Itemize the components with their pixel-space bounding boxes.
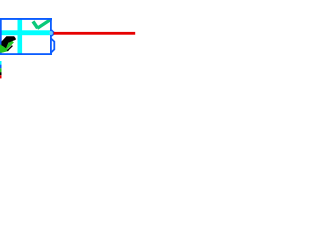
- palette sliver: cyan: [0, 61, 2, 65]
- box border: left edge: [0, 18, 2, 55]
- lower tab on right edge (blue outline, white inside): [51, 39, 54, 53]
- component box U1: white body: [0, 18, 52, 55]
- output port bulge light-blue dot: [49, 31, 53, 35]
- output port bulge (blue outline): [50, 29, 55, 37]
- pen/arrow icon: green arrow shaft: [5, 41, 13, 49]
- palette sliver: red: [0, 75, 2, 78]
- box border: right edge: [50, 18, 52, 55]
- component box U1: cyan cross vertical bar: [18, 20, 23, 54]
- pen/arrow icon: black pen body: [1, 36, 15, 48]
- box border: bottom edge: [0, 53, 52, 55]
- component box U1: cyan cross horizontal bar: [2, 30, 51, 35]
- wire (red) from port to the right: [54, 32, 136, 35]
- output port bulge cyan sliver: [50, 31, 51, 35]
- box border: top edge (over checkmark): [0, 18, 52, 20]
- palette sliver: black: [0, 72, 2, 75]
- palette sliver: blue: [0, 65, 2, 69]
- pen/arrow icon: black underline below shaft: [7, 46, 12, 51]
- palette sliver: green: [0, 68, 2, 72]
- checkmark (green): [33, 21, 38, 28]
- pen/arrow icon: green arrowhead: [0, 44, 9, 52]
